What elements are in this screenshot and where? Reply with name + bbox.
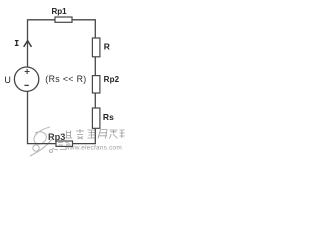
svg-text:Rp2: Rp2	[104, 75, 120, 84]
svg-text:Rp3: Rp3	[48, 132, 65, 142]
wire left rail upper	[27, 19, 29, 67]
svg-text:Rs: Rs	[103, 112, 114, 122]
resistor Rp1	[55, 17, 72, 22]
wire left rail lower	[27, 91, 29, 143]
svg-text:Rp1: Rp1	[52, 7, 68, 16]
minus sign	[24, 84, 28, 86]
voltage source U circle	[14, 67, 38, 91]
current arrow I	[24, 41, 32, 47]
wire top rail right segment	[72, 19, 95, 21]
wire right rail seg3	[94, 93, 96, 108]
resistor Rs	[92, 108, 100, 128]
resistor R	[92, 38, 100, 57]
resistor Rp3	[56, 141, 73, 146]
wire right rail seg4	[94, 128, 96, 143]
svg-text:R: R	[104, 42, 110, 52]
label I	[15, 41, 19, 46]
plus sign	[25, 69, 30, 74]
watermark CJK text row	[66, 129, 125, 139]
resistor Rp2	[92, 76, 100, 93]
wire right rail seg2	[94, 57, 96, 76]
svg-text:(Rs << R): (Rs << R)	[45, 74, 86, 84]
wire top rail left segment	[28, 19, 56, 21]
watermark logo swirl	[30, 127, 53, 156]
wire bottom rail right segment	[73, 143, 96, 145]
wire right rail seg1	[94, 19, 96, 38]
watermark marks over Rp3	[52, 142, 71, 150]
wire bottom rail left segment	[27, 143, 56, 145]
svg-text:U: U	[4, 75, 10, 85]
